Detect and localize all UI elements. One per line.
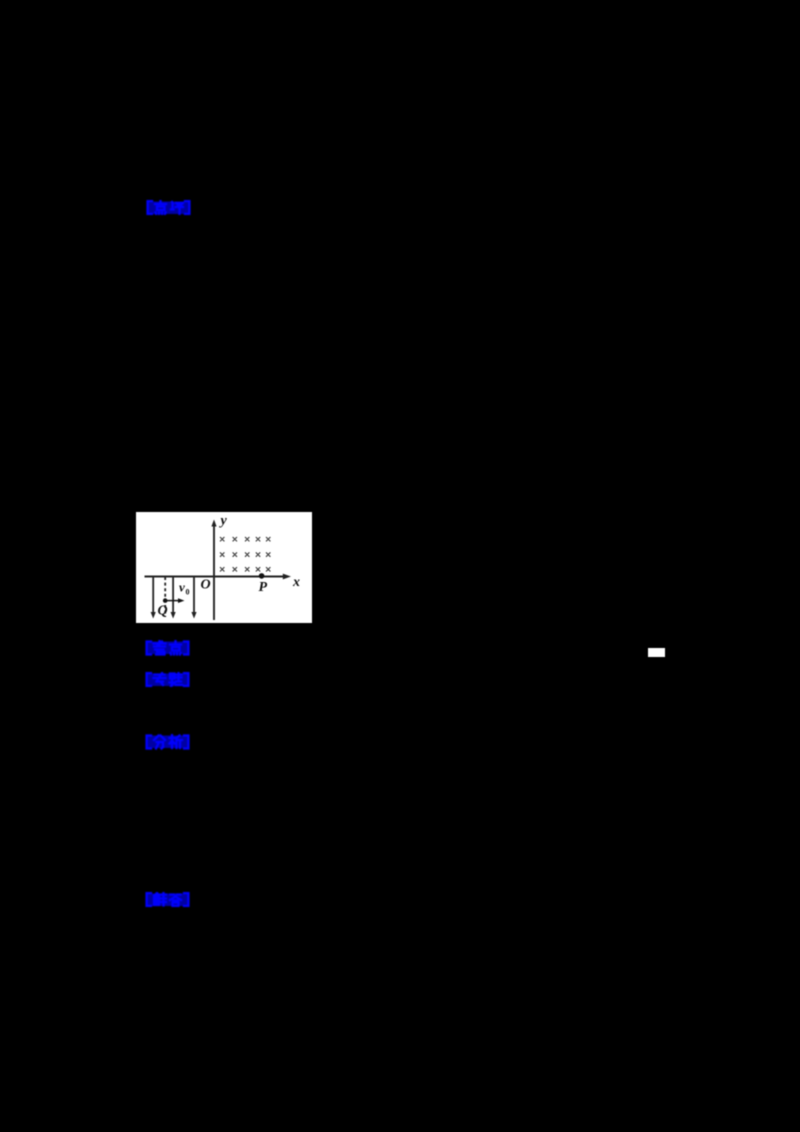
svg-text:y: y — [219, 514, 228, 529]
svg-text:x: x — [292, 575, 300, 590]
svg-text:P: P — [259, 580, 268, 595]
y-axis line — [213, 525, 215, 620]
section label 2 (blue) 【考点】 — [144, 640, 191, 656]
arrowhead of down arrow 3 — [191, 612, 196, 619]
arrowhead of down arrow 2 — [171, 612, 176, 619]
svg-text:0: 0 — [186, 588, 190, 597]
magnetic field B into page, cross row 2 — [220, 552, 270, 556]
section label 4 (blue) 【分析】 — [144, 734, 191, 750]
dashed guide line through Q — [164, 577, 166, 617]
charge at point Q — [163, 598, 168, 603]
electric field down arrow 1 — [152, 577, 154, 614]
physics figure: charge Q fired into magnetic field region, white panel — [136, 512, 312, 623]
electric field down arrow 2 — [172, 577, 174, 614]
electric field down arrow 3 — [193, 577, 195, 614]
svg-text:O: O — [201, 578, 211, 593]
magnetic field B into page, cross row 1 — [220, 537, 270, 541]
small white formula image block — [648, 648, 665, 657]
initial velocity v0 arrow shaft — [165, 600, 179, 602]
arrowhead of down arrow 1 — [151, 612, 156, 619]
section label 5 (blue) 【解答】 — [144, 892, 191, 907]
initial velocity v0 arrowhead — [178, 598, 185, 603]
y-axis arrowhead — [211, 520, 216, 527]
svg-text:Q: Q — [158, 604, 168, 619]
point P on x-axis — [259, 573, 265, 579]
x-axis line — [145, 576, 286, 578]
magnetic field B into page, cross row 3 — [220, 567, 270, 571]
svg-text:v: v — [179, 580, 185, 595]
x-axis arrowhead — [283, 574, 291, 580]
section label 3 (blue) 【专题】 — [144, 672, 191, 687]
section label 1 (blue) 【点评】 — [145, 200, 192, 215]
white figure background — [136, 512, 312, 623]
